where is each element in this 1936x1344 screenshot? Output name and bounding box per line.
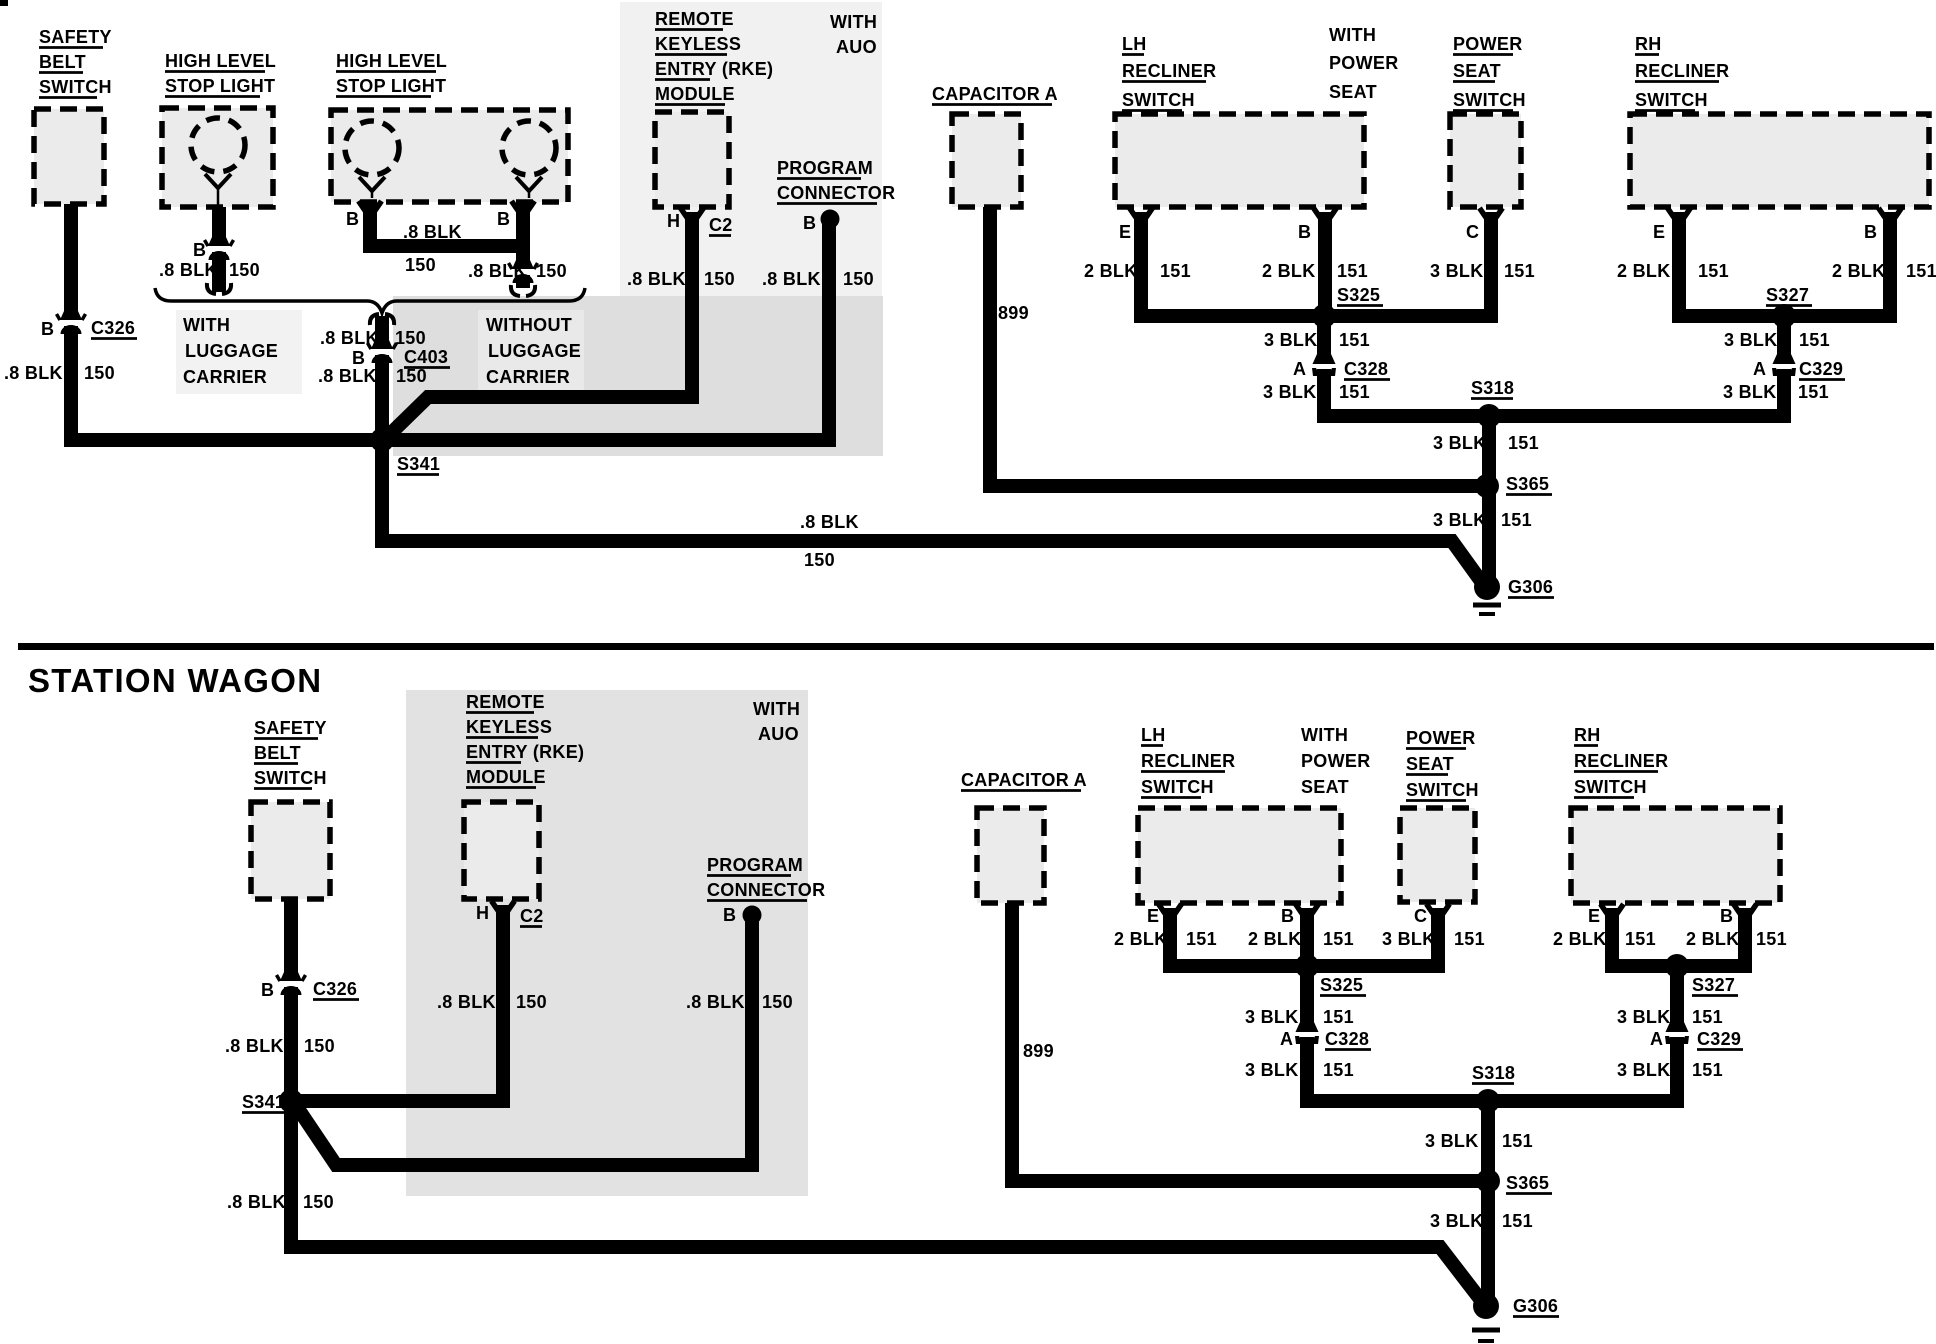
svg-text:150: 150 xyxy=(395,328,426,348)
svg-text:CARRIER: CARRIER xyxy=(183,367,267,387)
svg-text:B: B xyxy=(803,213,816,233)
svg-text:3 BLK: 3 BLK xyxy=(1723,382,1777,402)
svg-text:H: H xyxy=(476,903,489,923)
svg-text:.8 BLK: .8 BLK xyxy=(225,1036,284,1056)
svg-text:2 BLK: 2 BLK xyxy=(1553,929,1607,949)
svg-text:WITH: WITH xyxy=(1329,25,1376,45)
svg-text:151: 151 xyxy=(1625,929,1656,949)
svg-text:CAPACITOR A: CAPACITOR A xyxy=(932,84,1058,104)
svg-text:151: 151 xyxy=(1692,1060,1723,1080)
svg-text:SEAT: SEAT xyxy=(1301,777,1349,797)
svg-text:POWER: POWER xyxy=(1301,751,1371,771)
svg-text:151: 151 xyxy=(1502,1211,1533,1231)
svg-text:150: 150 xyxy=(229,260,260,280)
svg-text:S327: S327 xyxy=(1766,285,1809,305)
svg-text:B: B xyxy=(346,209,359,229)
svg-text:2 BLK: 2 BLK xyxy=(1262,261,1316,281)
svg-text:151: 151 xyxy=(1698,261,1729,281)
svg-text:S341: S341 xyxy=(397,454,440,474)
svg-text:S318: S318 xyxy=(1471,378,1514,398)
svg-text:B: B xyxy=(1281,906,1294,926)
svg-text:C2: C2 xyxy=(520,906,544,926)
svg-text:REMOTE: REMOTE xyxy=(466,692,545,712)
svg-text:B: B xyxy=(1720,906,1733,926)
svg-text:S365: S365 xyxy=(1506,474,1549,494)
svg-text:3 BLK: 3 BLK xyxy=(1263,382,1317,402)
svg-text:150: 150 xyxy=(843,269,874,289)
svg-text:A: A xyxy=(1650,1029,1663,1049)
svg-text:151: 151 xyxy=(1339,382,1370,402)
svg-text:3 BLK: 3 BLK xyxy=(1433,433,1487,453)
svg-text:.8 BLK: .8 BLK xyxy=(762,269,821,289)
svg-text:151: 151 xyxy=(1799,330,1830,350)
svg-text:C329: C329 xyxy=(1697,1029,1741,1049)
svg-text:150: 150 xyxy=(84,363,115,383)
svg-text:SWITCH: SWITCH xyxy=(1406,780,1479,800)
svg-text:151: 151 xyxy=(1186,929,1217,949)
svg-text:.8 BLK: .8 BLK xyxy=(686,992,745,1012)
svg-text:BELT: BELT xyxy=(39,52,86,72)
svg-text:BELT: BELT xyxy=(254,743,301,763)
svg-text:HIGH LEVEL: HIGH LEVEL xyxy=(336,51,447,71)
svg-text:G306: G306 xyxy=(1513,1296,1558,1316)
svg-text:PROGRAM: PROGRAM xyxy=(777,158,873,178)
svg-text:RECLINER: RECLINER xyxy=(1141,751,1235,771)
svg-text:SEAT: SEAT xyxy=(1453,61,1501,81)
svg-text:E: E xyxy=(1588,906,1600,926)
svg-text:E: E xyxy=(1119,222,1131,242)
svg-text:150: 150 xyxy=(405,255,436,275)
svg-text:C328: C328 xyxy=(1325,1029,1369,1049)
svg-text:151: 151 xyxy=(1508,433,1539,453)
svg-text:SWITCH: SWITCH xyxy=(1453,90,1526,110)
svg-text:C328: C328 xyxy=(1344,359,1388,379)
svg-text:ENTRY (RKE): ENTRY (RKE) xyxy=(655,59,773,79)
svg-text:3 BLK: 3 BLK xyxy=(1724,330,1778,350)
svg-text:AUO: AUO xyxy=(758,724,799,744)
svg-text:151: 151 xyxy=(1501,510,1532,530)
svg-text:2 BLK: 2 BLK xyxy=(1084,261,1138,281)
svg-text:S325: S325 xyxy=(1320,975,1363,995)
svg-text:899: 899 xyxy=(1023,1041,1054,1061)
svg-text:2 BLK: 2 BLK xyxy=(1832,261,1886,281)
svg-text:CAPACITOR A: CAPACITOR A xyxy=(961,770,1087,790)
svg-text:STATION WAGON: STATION WAGON xyxy=(28,662,322,699)
svg-text:150: 150 xyxy=(762,992,793,1012)
svg-text:RH: RH xyxy=(1635,34,1662,54)
svg-text:2 BLK: 2 BLK xyxy=(1114,929,1168,949)
svg-text:C: C xyxy=(1466,222,1479,242)
svg-text:150: 150 xyxy=(536,261,567,281)
svg-text:CONNECTOR: CONNECTOR xyxy=(777,183,895,203)
svg-text:150: 150 xyxy=(396,366,427,386)
svg-text:ENTRY (RKE): ENTRY (RKE) xyxy=(466,742,584,762)
svg-text:C329: C329 xyxy=(1799,359,1843,379)
svg-text:MODULE: MODULE xyxy=(655,84,735,104)
svg-text:REMOTE: REMOTE xyxy=(655,9,734,29)
svg-text:S327: S327 xyxy=(1692,975,1735,995)
svg-text:.8 BLK: .8 BLK xyxy=(227,1192,286,1212)
svg-text:POWER: POWER xyxy=(1329,53,1399,73)
svg-text:151: 151 xyxy=(1504,261,1535,281)
svg-text:151: 151 xyxy=(1323,1007,1354,1027)
svg-text:151: 151 xyxy=(1323,1060,1354,1080)
svg-text:.8 BLK: .8 BLK xyxy=(437,992,496,1012)
svg-text:SAFETY: SAFETY xyxy=(39,27,112,47)
svg-text:150: 150 xyxy=(704,269,735,289)
svg-text:.8 BLK: .8 BLK xyxy=(320,328,379,348)
svg-text:3 BLK: 3 BLK xyxy=(1382,929,1436,949)
svg-text:C: C xyxy=(1414,906,1427,926)
svg-text:AUO: AUO xyxy=(836,37,877,57)
svg-text:3 BLK: 3 BLK xyxy=(1617,1007,1671,1027)
svg-text:151: 151 xyxy=(1692,1007,1723,1027)
svg-text:151: 151 xyxy=(1160,261,1191,281)
svg-text:S365: S365 xyxy=(1506,1173,1549,1193)
svg-text:SWITCH: SWITCH xyxy=(1141,777,1214,797)
svg-text:A: A xyxy=(1753,359,1766,379)
svg-text:LUGGAGE: LUGGAGE xyxy=(488,341,581,361)
svg-text:3 BLK: 3 BLK xyxy=(1264,330,1318,350)
svg-text:C326: C326 xyxy=(313,979,357,999)
svg-text:SWITCH: SWITCH xyxy=(39,77,112,97)
svg-text:A: A xyxy=(1280,1029,1293,1049)
svg-text:STOP LIGHT: STOP LIGHT xyxy=(336,76,446,96)
svg-text:WITH: WITH xyxy=(1301,725,1348,745)
svg-text:.8 BLK: .8 BLK xyxy=(318,366,377,386)
svg-text:B: B xyxy=(723,905,736,925)
svg-text:B: B xyxy=(352,348,365,368)
svg-text:SEAT: SEAT xyxy=(1406,754,1454,774)
svg-text:WITHOUT: WITHOUT xyxy=(486,315,572,335)
svg-text:B: B xyxy=(1864,222,1877,242)
svg-text:KEYLESS: KEYLESS xyxy=(466,717,552,737)
svg-text:A: A xyxy=(1293,359,1306,379)
svg-text:150: 150 xyxy=(303,1192,334,1212)
svg-text:B: B xyxy=(1298,222,1311,242)
svg-text:WITH: WITH xyxy=(753,699,800,719)
svg-text:H: H xyxy=(667,211,680,231)
svg-text:151: 151 xyxy=(1906,261,1936,281)
svg-text:.8 BLK: .8 BLK xyxy=(159,260,218,280)
svg-text:.8 BLK: .8 BLK xyxy=(4,363,63,383)
svg-text:S318: S318 xyxy=(1472,1063,1515,1083)
svg-text:WITH: WITH xyxy=(183,315,230,335)
svg-text:MODULE: MODULE xyxy=(466,767,546,787)
svg-text:RECLINER: RECLINER xyxy=(1122,61,1216,81)
svg-text:POWER: POWER xyxy=(1453,34,1523,54)
svg-text:POWER: POWER xyxy=(1406,728,1476,748)
svg-text:SAFETY: SAFETY xyxy=(254,718,327,738)
svg-text:S325: S325 xyxy=(1337,285,1380,305)
svg-text:RH: RH xyxy=(1574,725,1601,745)
svg-text:C403: C403 xyxy=(404,347,448,367)
svg-text:3 BLK: 3 BLK xyxy=(1425,1131,1479,1151)
svg-text:150: 150 xyxy=(304,1036,335,1056)
svg-text:151: 151 xyxy=(1339,330,1370,350)
svg-text:3 BLK: 3 BLK xyxy=(1430,1211,1484,1231)
svg-text:B: B xyxy=(261,980,274,1000)
svg-text:SEAT: SEAT xyxy=(1329,82,1377,102)
svg-text:E: E xyxy=(1147,906,1159,926)
svg-text:E: E xyxy=(1653,222,1665,242)
svg-text:3 BLK: 3 BLK xyxy=(1245,1060,1299,1080)
svg-text:SWITCH: SWITCH xyxy=(1574,777,1647,797)
svg-text:2 BLK: 2 BLK xyxy=(1686,929,1740,949)
svg-text:.8 BLK: .8 BLK xyxy=(627,269,686,289)
svg-text:B: B xyxy=(497,209,510,229)
svg-text:SWITCH: SWITCH xyxy=(1122,90,1195,110)
svg-text:WITH: WITH xyxy=(830,12,877,32)
svg-text:151: 151 xyxy=(1798,382,1829,402)
svg-text:150: 150 xyxy=(804,550,835,570)
svg-text:.8 BLK: .8 BLK xyxy=(403,222,462,242)
svg-text:151: 151 xyxy=(1337,261,1368,281)
svg-text:G306: G306 xyxy=(1508,577,1553,597)
svg-text:2 BLK: 2 BLK xyxy=(1248,929,1302,949)
svg-text:3 BLK: 3 BLK xyxy=(1617,1060,1671,1080)
svg-text:HIGH LEVEL: HIGH LEVEL xyxy=(165,51,276,71)
svg-text:RECLINER: RECLINER xyxy=(1574,751,1668,771)
svg-text:151: 151 xyxy=(1756,929,1787,949)
svg-text:B: B xyxy=(193,240,206,260)
svg-text:CARRIER: CARRIER xyxy=(486,367,570,387)
svg-text:151: 151 xyxy=(1323,929,1354,949)
svg-text:CONNECTOR: CONNECTOR xyxy=(707,880,825,900)
svg-text:SWITCH: SWITCH xyxy=(1635,90,1708,110)
svg-text:KEYLESS: KEYLESS xyxy=(655,34,741,54)
svg-text:151: 151 xyxy=(1502,1131,1533,1151)
svg-text:RECLINER: RECLINER xyxy=(1635,61,1729,81)
svg-text:899: 899 xyxy=(998,303,1029,323)
svg-text:B: B xyxy=(41,319,54,339)
svg-text:PROGRAM: PROGRAM xyxy=(707,855,803,875)
svg-text:.8 BLK: .8 BLK xyxy=(800,512,859,532)
svg-text:STOP LIGHT: STOP LIGHT xyxy=(165,76,275,96)
svg-text:3 BLK: 3 BLK xyxy=(1245,1007,1299,1027)
svg-text:LH: LH xyxy=(1141,725,1166,745)
svg-text:3 BLK: 3 BLK xyxy=(1430,261,1484,281)
svg-text:2 BLK: 2 BLK xyxy=(1617,261,1671,281)
svg-text:.8 BLK: .8 BLK xyxy=(468,261,527,281)
svg-text:3 BLK: 3 BLK xyxy=(1433,510,1487,530)
svg-text:SWITCH: SWITCH xyxy=(254,768,327,788)
svg-text:LUGGAGE: LUGGAGE xyxy=(185,341,278,361)
svg-text:C2: C2 xyxy=(709,215,733,235)
svg-text:150: 150 xyxy=(516,992,547,1012)
svg-text:151: 151 xyxy=(1454,929,1485,949)
svg-text:C326: C326 xyxy=(91,318,135,338)
svg-text:S341: S341 xyxy=(242,1092,285,1112)
svg-text:LH: LH xyxy=(1122,34,1147,54)
